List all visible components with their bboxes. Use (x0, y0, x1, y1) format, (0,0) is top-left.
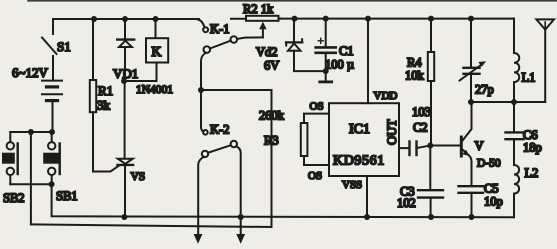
node K-1 common junction (198, 87, 204, 93)
wire bottom bus wire2 (31, 224, 272, 227)
node L1 bottom (511, 99, 517, 105)
capacitor C1 100u (316, 19, 354, 72)
wire collector node (471, 101, 545, 103)
node C3 on wire1 (428, 214, 434, 220)
svg-text:10p: 10p (484, 195, 503, 209)
svg-text:SB2: SB2 (3, 191, 25, 205)
svg-text:V: V (475, 139, 484, 153)
svg-text:OS: OS (310, 101, 324, 113)
svg-text:1N4001: 1N4001 (136, 84, 173, 96)
svg-text:18p: 18p (523, 141, 542, 155)
wire top bus right (279, 18, 515, 20)
switch S1 (42, 19, 71, 80)
capacitor C5 10p (459, 181, 503, 217)
wire top bus left (53, 18, 199, 20)
node K-2 throw on wire1 (238, 214, 244, 220)
svg-text:D-50: D-50 (477, 158, 501, 170)
node bus-R4 (428, 16, 434, 22)
svg-text:KD9561: KD9561 (333, 154, 385, 169)
node C5 on wire1 (469, 214, 475, 220)
transistor V D-50 (461, 102, 501, 186)
svg-text:6~12V: 6~12V (12, 65, 49, 80)
node VS cathode on wire1 (121, 214, 127, 220)
inductor L1 (514, 19, 535, 102)
zener Vd2 6V (256, 19, 326, 73)
resistor R4 10k (405, 19, 434, 146)
svg-text:C2: C2 (413, 121, 428, 135)
node bus-K (153, 16, 159, 22)
arrow output 1 (194, 234, 203, 244)
capacitor C6 18p (506, 102, 542, 165)
node bus-VDD (365, 16, 371, 22)
antenna (536, 19, 554, 102)
wire base lead (430, 145, 460, 147)
node collector junction (468, 99, 474, 105)
svg-text:R1: R1 (98, 83, 113, 98)
svg-text:R4: R4 (407, 56, 422, 70)
node bus-C1 (323, 16, 329, 22)
svg-text:VDD: VDD (374, 90, 398, 102)
battery B 6~12V (12, 65, 62, 132)
svg-text:L2: L2 (525, 166, 539, 180)
capacitor C3 102 (397, 146, 443, 218)
svg-text:S1: S1 (57, 39, 71, 54)
wire ground bus wire1 (52, 184, 514, 217)
pushbutton SB2 (2, 132, 25, 205)
wire VDD pin (367, 19, 369, 104)
svg-text:Vd2: Vd2 (256, 45, 278, 59)
wire junction down to K-2 (201, 90, 203, 132)
svg-text:L1: L1 (522, 71, 536, 85)
svg-text:R3: R3 (264, 134, 279, 148)
diode VD1 1N4001 (113, 19, 173, 96)
wire battery negative to push buttons (10, 131, 52, 133)
node bus-27p (468, 16, 474, 22)
svg-text:C5: C5 (484, 181, 499, 195)
relay contact K-1 (196, 19, 263, 53)
node VSS on wire1 (364, 214, 370, 220)
node battery-SB1 (49, 129, 55, 135)
node bus-R1 (91, 16, 97, 22)
wire K-2 pole to output arrow 1 (198, 157, 204, 235)
wire K bottom to VD1 anode (124, 80, 157, 82)
wire VSS pin (366, 176, 368, 217)
wire junction to wire2 riser (201, 90, 272, 227)
ground (320, 71, 332, 82)
thyristor VS (118, 81, 146, 217)
resistor R1 3k (90, 19, 119, 172)
wire SB2 bottom to SB1 bottom (10, 183, 51, 185)
node VD1-K-VS junction (121, 78, 127, 84)
svg-text:VS: VS (131, 171, 146, 183)
resistor R3 260k (259, 101, 329, 183)
wire K-2 throw to output arrow 2 (236, 146, 241, 234)
node bus-Vd2 (292, 16, 298, 22)
potentiometer R2 1k (231, 2, 281, 37)
relay coil K (146, 19, 168, 81)
node wire2 riser (28, 129, 34, 135)
svg-text:27p: 27p (475, 83, 494, 97)
svg-text:K: K (152, 44, 162, 59)
svg-text:IC1: IC1 (349, 122, 370, 137)
trimmer capacitor 27p (460, 19, 494, 102)
svg-text:OS: OS (308, 170, 322, 182)
svg-text:K-1: K-1 (210, 22, 229, 36)
capacitor C2 103 (399, 105, 431, 155)
svg-text:K-2: K-2 (210, 123, 229, 137)
scan edge artifact top (28, 0, 557, 2)
node bus-VD1 (122, 16, 128, 22)
arrow output 2 (236, 234, 245, 244)
svg-text:103: 103 (412, 105, 431, 119)
svg-text:3k: 3k (97, 98, 111, 113)
node base junction (427, 143, 433, 149)
svg-text:R2 1k: R2 1k (243, 2, 274, 16)
pushbutton SB1 (43, 132, 77, 203)
node Vd2-C1 ground junction (323, 68, 329, 74)
svg-text:100 µ: 100 µ (325, 58, 354, 72)
svg-text:260k: 260k (259, 109, 285, 123)
svg-text:SB1: SB1 (56, 189, 78, 203)
wire riser battery negative to wire2 (30, 132, 32, 224)
svg-text:102: 102 (397, 196, 416, 210)
svg-text:10k: 10k (405, 69, 425, 83)
svg-text:6V: 6V (264, 59, 279, 73)
inductor L2 (514, 165, 538, 217)
svg-text:VSS: VSS (342, 179, 362, 191)
node SB bottoms junction (49, 181, 55, 187)
svg-text:OUT: OUT (385, 119, 399, 145)
relay contact K-2 (202, 123, 237, 158)
svg-text:C1: C1 (339, 44, 354, 58)
wire K-1 common down (201, 53, 206, 90)
op IC1 KD9561 box (329, 103, 399, 176)
